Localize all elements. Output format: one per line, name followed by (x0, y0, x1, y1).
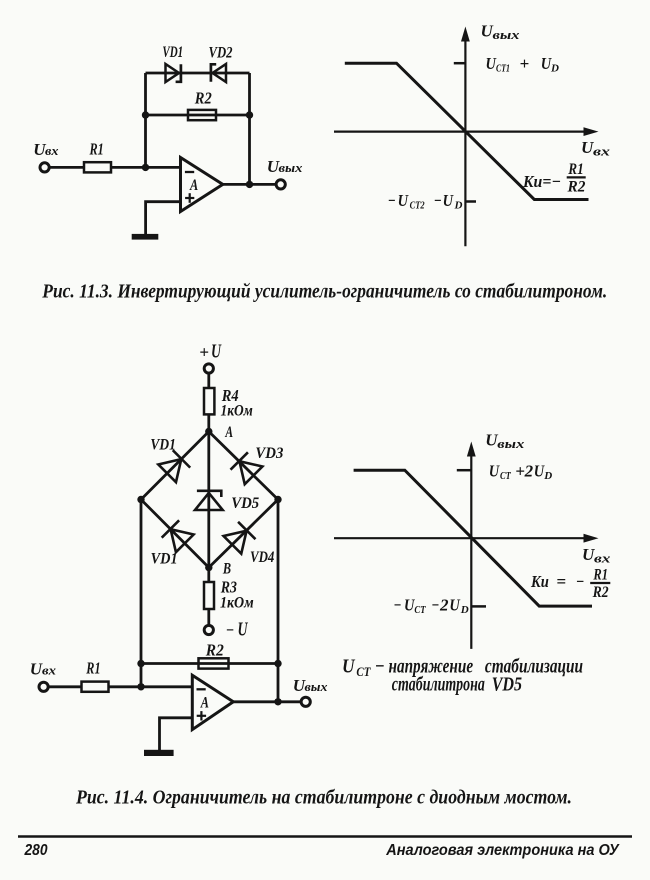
wire R4 to node A (207, 414, 210, 431)
wire lower feedback branch (146, 114, 250, 117)
horizontal axis Uвх (334, 131, 590, 133)
svg-text:R2: R2 (205, 641, 224, 660)
svg-text:A: A (189, 177, 198, 194)
transfer curve fig11.4 (354, 470, 592, 606)
svg-text:1кОм: 1кОм (220, 595, 254, 612)
svg-text:1кОм: 1кОм (221, 402, 253, 419)
wire feedback branch R2 (141, 662, 278, 665)
tick positive clip level fig11.4 (457, 469, 472, 472)
wire R3 to -U terminal (207, 609, 210, 626)
ground fig11.4 (144, 750, 174, 756)
wire R1 to op-amp inverting input (111, 166, 181, 169)
svg-text:VD1: VD1 (151, 551, 178, 568)
svg-text:VD5: VD5 (231, 495, 259, 512)
node input junction fig11.4 (137, 683, 144, 690)
node output junction (246, 181, 253, 188)
svg-text:Рис. 11.3. Инвертирующий ус: Рис. 11.3. Инвертирующий усилитель-огран… (41, 281, 607, 303)
diode VD1 top-left (158, 450, 190, 482)
svg-text:Аналоговая электроника на ОУ: Аналоговая электроника на ОУ (385, 842, 620, 859)
svg-text:Uвх: Uвх (33, 140, 59, 159)
svg-text:R1: R1 (86, 659, 101, 678)
svg-text:стабилитронаVD5: стабилитронаVD5 (392, 674, 522, 696)
op-amp A fig11.4 (192, 675, 233, 729)
ground (132, 234, 159, 240)
svg-text:VD4: VD4 (250, 549, 274, 566)
svg-text:Ku=−: Ku=− (522, 172, 561, 191)
diode VD1 bottom-left (162, 520, 194, 552)
svg-text:Рис. 11.4. Ограничитель на: Рис. 11.4. Ограничитель на стабилитроне … (75, 786, 572, 808)
svg-text:R2: R2 (592, 584, 609, 601)
svg-text:B: B (222, 561, 231, 578)
zener diode VD2 (211, 64, 226, 82)
tick negative clip level fig11.4 (471, 605, 486, 608)
tick negative clip level (465, 200, 476, 203)
svg-text:R1: R1 (567, 161, 583, 178)
svg-text:A: A (225, 424, 234, 441)
wire +U terminal to R4 (207, 373, 210, 389)
svg-text:R2: R2 (567, 179, 586, 196)
wire right vertex down to output node (277, 500, 280, 702)
svg-text:+U: +U (199, 342, 221, 363)
svg-text:−UСТ−2UD: −UСТ−2UD (393, 596, 468, 617)
transfer curve fig11.3 (345, 63, 589, 199)
wire middle branch A to B (207, 432, 210, 568)
wire non-inverting input to ground fig11.4 (160, 718, 193, 750)
diode VD4 bottom-right (224, 522, 256, 554)
svg-text:VD1: VD1 (150, 436, 175, 453)
terminal +U (204, 364, 213, 373)
wire bridge arm A to left vertex (141, 432, 209, 500)
svg-text:VD2: VD2 (209, 45, 233, 62)
footer rule (18, 835, 632, 837)
wire left feedback vertical (144, 73, 147, 167)
svg-text:Uвх: Uвх (30, 659, 57, 678)
resistor R2 fig11.4 (199, 658, 229, 668)
node R2 right junction (274, 660, 281, 667)
svg-text:UСТ+2UD: UСТ+2UD (489, 461, 553, 482)
wire top feedback branch (146, 72, 250, 75)
node output junction fig11.4 (274, 698, 281, 705)
resistor R2 (188, 110, 216, 120)
wire input terminal to R1 (49, 166, 84, 169)
svg-text:R2: R2 (194, 88, 212, 107)
svg-text:R1: R1 (593, 567, 608, 584)
tick positive clip level (454, 62, 466, 65)
resistor R1 (84, 162, 111, 172)
zener diode VD5 centre branch (195, 491, 223, 510)
wire bridge arm A to right vertex (209, 432, 278, 500)
node input junction (142, 164, 149, 171)
svg-text:280: 280 (24, 842, 48, 859)
svg-text:VD1: VD1 (162, 44, 183, 61)
wire input terminal to R1 fig11.4 (48, 685, 82, 688)
node left feedback junction (142, 111, 149, 118)
diode VD3 top-right (230, 452, 262, 484)
node R2 left junction (137, 660, 144, 667)
resistor R4 (204, 388, 214, 414)
node B (205, 564, 212, 571)
node right feedback junction (246, 111, 253, 118)
wire bridge arm right vertex to B (209, 500, 278, 568)
wire right feedback vertical (248, 73, 251, 185)
wire node B to R3 (207, 568, 210, 583)
input terminal Uvx fig11.3 (40, 163, 49, 172)
wire left vertex down to input node (140, 500, 143, 687)
op-amp A fig11.3 (181, 158, 223, 212)
terminal -U (204, 625, 213, 634)
svg-text:R1: R1 (89, 140, 104, 159)
output terminal Uvyx fig11.3 (276, 180, 285, 189)
svg-text:Uвых: Uвых (267, 157, 303, 176)
output terminal Uвых fig11.4 (301, 697, 310, 706)
vertical axis Uвых fig11.4 (470, 453, 472, 649)
resistor R1 fig11.4 (82, 682, 109, 692)
input terminal Uвх fig11.4 (39, 682, 48, 691)
svg-text:−U: −U (226, 620, 249, 641)
node bridge left vertex (137, 496, 144, 503)
horizontal axis Uвх fig11.4 (334, 537, 590, 539)
wire non-inverting input to ground (146, 202, 181, 234)
svg-text:Uвых: Uвых (293, 676, 328, 695)
resistor R3 (204, 582, 214, 609)
node bridge right vertex (274, 496, 281, 503)
zener diode VD1 (166, 64, 181, 82)
wire op-amp output (223, 183, 277, 186)
vertical axis Uвых (464, 38, 466, 246)
node A (205, 428, 212, 435)
svg-text:A: A (200, 694, 209, 711)
svg-text:VD3: VD3 (255, 445, 283, 462)
wire bridge arm left vertex to B (141, 500, 209, 568)
wire op-amp output fig11.4 (233, 700, 301, 703)
svg-text:Ku=−: Ku=− (530, 572, 584, 591)
wire R1 to op-amp fig11.4 (109, 685, 193, 688)
